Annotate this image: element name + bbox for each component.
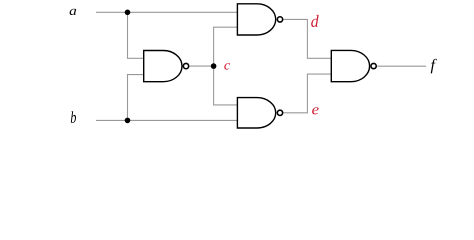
junction node A (a branch) — [125, 10, 131, 16]
input label a — [70, 9, 77, 15]
net label d — [311, 15, 319, 27]
wire a (input a horizontal) — [96, 11, 238, 13]
junction node C — [211, 63, 217, 69]
wire b (input b horizontal) — [96, 119, 238, 121]
nand gate U4 bubble — [371, 63, 376, 68]
junction node B (b branch) — [125, 118, 131, 124]
net label c — [224, 63, 230, 69]
input label b — [71, 111, 76, 123]
wire from node A down to U1 top input — [128, 12, 145, 58]
wire U3 output e to U4 bottom input — [283, 74, 332, 113]
nand gate U3 bubble — [277, 110, 282, 115]
output label f — [431, 59, 437, 74]
wire from node B up to U1 bottom input — [128, 75, 145, 121]
wire U2 output d to U4 top input — [283, 19, 332, 58]
wire node C up to U2 bottom input — [214, 27, 239, 66]
nand gate U2 body (top) — [237, 4, 275, 35]
wire U1 output to node C — [189, 65, 213, 67]
nand gate U1 bubble — [183, 63, 188, 68]
nand gate U3 body (bottom) — [237, 98, 275, 128]
nand gate U4 body (right) — [331, 50, 369, 81]
nand gate U2 bubble — [277, 17, 282, 22]
wire node C down to U3 top input — [214, 66, 239, 105]
net label e — [312, 107, 319, 114]
nand gate U1 body (middle) — [144, 51, 182, 82]
wire U4 output to f — [377, 65, 426, 67]
